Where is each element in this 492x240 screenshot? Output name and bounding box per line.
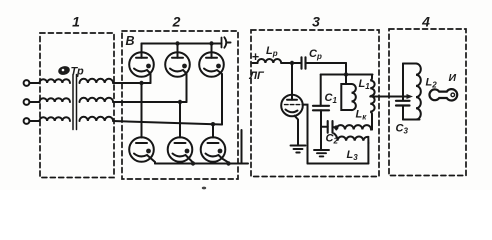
grid return wire [308, 163, 369, 165]
wire phase3 down to V6 anode [212, 124, 214, 137]
block 1 dashed box [40, 33, 114, 178]
node phase3 to V6 [211, 122, 215, 126]
output capacitor symbol at rail end [222, 37, 231, 48]
workpiece (dumbbell) [429, 89, 457, 100]
cathode rail (-) of rectifier [155, 163, 248, 165]
terminal B [24, 99, 30, 105]
block 4 dashed box [389, 29, 466, 176]
wire C1 to ground [320, 110, 322, 149]
blocking capacitor Cp [302, 57, 306, 68]
output wire to block 4 [370, 96, 403, 98]
choke Lp [258, 59, 282, 63]
HF primary coil L1 [370, 75, 374, 130]
wire Cp to tank drop [306, 62, 347, 64]
scan smudge [202, 187, 206, 190]
cathode lead to ground [295, 116, 299, 145]
rectifier tube V5 (bottom row) [168, 137, 193, 163]
wire phase2 down to V5 anode [179, 102, 181, 138]
heating circuit left riser [402, 64, 404, 101]
rectifier tube V4 (bottom row) [129, 137, 155, 163]
wire rail B to C1 [320, 75, 322, 106]
phase wire 1 [113, 82, 150, 84]
wire terminal A to primary 1 [29, 82, 39, 84]
work coil L2 [416, 64, 421, 120]
heating circuit top wire [403, 63, 416, 65]
tank capacitor C1 [313, 106, 329, 111]
terminal A [24, 80, 30, 86]
block 2 dashed box [122, 31, 238, 179]
phase wire 2 [113, 101, 186, 103]
transformer primary winding 1 [40, 79, 70, 83]
node phase2 to V5 [178, 100, 182, 104]
svg-text:ЛГ: ЛГ [249, 70, 266, 82]
svg-text:В: В [126, 34, 135, 48]
heating circuit lower riser [402, 106, 404, 120]
svg-text:3: 3 [312, 14, 320, 30]
svg-text:И: И [449, 72, 457, 84]
rectifier tube V2 (top row) [165, 44, 190, 103]
arrow (coupling adjust) [403, 96, 408, 98]
anode rail (+) of rectifier [142, 43, 222, 45]
ground (cathode) [291, 146, 306, 153]
wire choke to anode node [281, 62, 301, 64]
transformer Tr ink blot [57, 65, 71, 76]
transformer primary winding 2 [40, 98, 70, 102]
node on rail B [344, 72, 348, 76]
wire terminal B to primary 2 [29, 101, 39, 103]
transformer secondary winding 2 [80, 98, 114, 102]
transformer secondary winding 3 [80, 117, 114, 121]
node on cathode rail at V5 [191, 161, 195, 165]
drop from rail A to rail B [345, 63, 347, 75]
heating capacitor C3 [396, 101, 410, 106]
transformer core [73, 75, 77, 130]
svg-text:4: 4 [421, 14, 430, 30]
ground (C1) [314, 150, 329, 156]
svg-text:1: 1 [72, 14, 80, 30]
rectifier tube V6 (bottom row) [201, 137, 229, 163]
wire cathode rail riser [241, 130, 243, 164]
anode supply wire into block 3 [253, 62, 258, 64]
phase wire 3 [113, 121, 222, 125]
svg-text:Lк: Lк [356, 109, 368, 122]
svg-text:L3: L3 [347, 149, 359, 162]
transformer secondary winding 1 [80, 79, 114, 83]
rectifier tube V3 (top row) [199, 44, 224, 125]
transformer primary winding 3 [40, 117, 70, 121]
svg-text:2: 2 [172, 14, 181, 30]
svg-text:L1: L1 [359, 78, 371, 91]
coupling coil (horizontal, to L1 bottom) [336, 125, 372, 129]
svg-text:L2: L2 [426, 77, 438, 90]
grid lead [302, 105, 307, 164]
terminal C [24, 118, 30, 124]
tank coil Lk [352, 84, 356, 110]
tank rail B [321, 74, 373, 76]
anode node [290, 61, 294, 65]
svg-text:C3: C3 [396, 123, 409, 136]
wire terminal C to primary 3 [29, 120, 39, 122]
node on rail at V3 [209, 41, 213, 45]
oscillator tube LG [281, 63, 303, 116]
svg-text:Lр: Lр [266, 45, 278, 58]
node on cathode rail at V6 [226, 161, 230, 165]
feed to Lk [345, 75, 347, 85]
heating circuit bottom wire [403, 119, 420, 121]
svg-text:C1: C1 [325, 92, 338, 105]
node on rail at V2 [175, 41, 179, 45]
wire phase1 down to V4 anode [141, 83, 143, 138]
node phase1 to V4 [139, 81, 143, 85]
tank coil Lk frame [341, 84, 351, 110]
svg-text:Cр: Cр [309, 48, 322, 61]
node at C2 / coils [334, 125, 338, 129]
block 3 dashed box [251, 30, 379, 177]
grid coil L3 right lead [367, 143, 369, 164]
rectifier tube V1 (top row) [129, 44, 154, 84]
grid capacitor C2 [321, 121, 336, 133]
grid coil L3 [334, 134, 368, 144]
